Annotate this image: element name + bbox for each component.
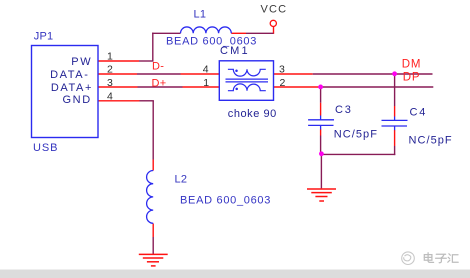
svg-text:DATA+: DATA+ — [51, 82, 93, 94]
svg-text:VCC: VCC — [261, 3, 288, 15]
svg-text:D-: D- — [152, 60, 164, 72]
svg-text:1: 1 — [107, 51, 113, 63]
svg-text:DATA-: DATA- — [50, 69, 89, 81]
svg-text:JP1: JP1 — [34, 31, 54, 43]
svg-text:D+: D+ — [152, 78, 167, 90]
svg-text:PW: PW — [71, 56, 92, 68]
svg-text:DP: DP — [403, 72, 421, 84]
svg-text:4: 4 — [203, 64, 209, 76]
svg-text:4: 4 — [107, 91, 113, 103]
svg-text:2: 2 — [107, 64, 113, 76]
svg-text:BEAD 600_0603: BEAD 600_0603 — [180, 195, 271, 207]
svg-text:DM: DM — [402, 59, 422, 71]
svg-text:GND: GND — [63, 94, 92, 106]
svg-text:1: 1 — [203, 77, 209, 89]
svg-text:C3: C3 — [335, 104, 353, 116]
svg-text:3: 3 — [107, 77, 113, 89]
svg-text:L2: L2 — [175, 174, 188, 186]
svg-text:CM1: CM1 — [220, 45, 250, 57]
svg-text:3: 3 — [279, 64, 285, 76]
svg-text:USB: USB — [33, 142, 58, 154]
svg-text:L1: L1 — [194, 9, 207, 21]
svg-text:choke 90: choke 90 — [228, 108, 277, 120]
svg-text:NC/5pF: NC/5pF — [334, 129, 378, 141]
svg-text:C4: C4 — [410, 107, 428, 119]
svg-text:2: 2 — [280, 77, 286, 89]
svg-text:NC/5pF: NC/5pF — [409, 135, 453, 147]
